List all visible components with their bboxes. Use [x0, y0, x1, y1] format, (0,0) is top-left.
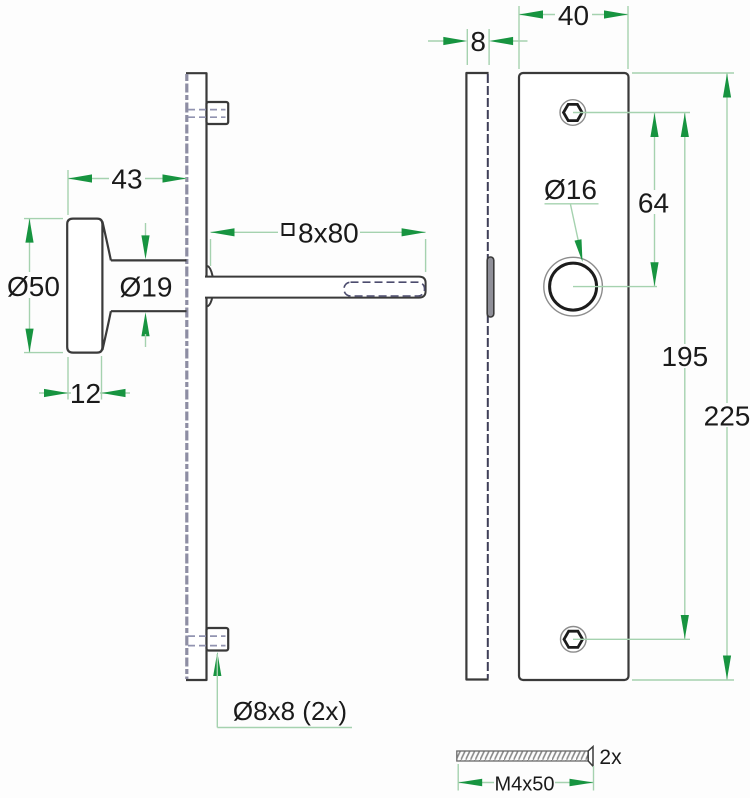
- dim 64 top arrow: [650, 113, 658, 137]
- dim 195 bottom arrow: [681, 615, 689, 639]
- leader D8x8 horizontal line: [217, 727, 352, 729]
- leader D8x8 arrow: [213, 652, 221, 676]
- dim 12 left arrow: [44, 389, 68, 397]
- middle plate outline: [466, 73, 488, 680]
- top screw hole hexagon: [564, 104, 583, 120]
- knob stem neck bottom edge: [111, 310, 187, 312]
- dim 40 right arrow: [604, 10, 628, 18]
- knob hole D16 inner circle: [550, 263, 597, 310]
- dim 12 extension left: [67, 357, 69, 400]
- top peg (8x8 pin): [188, 102, 228, 124]
- dim D50 top arrow: [25, 219, 33, 243]
- spindle hidden square hole dashed: [344, 282, 425, 296]
- leader D8x8 vertical line: [216, 654, 218, 728]
- spindle square bar 8x80: [205, 277, 426, 298]
- dim 8 left arrow: [443, 37, 467, 45]
- dim D19 top arrow: [141, 235, 149, 259]
- svg-text:2x: 2x: [599, 746, 622, 769]
- dim 8x80 left arrow: [211, 228, 235, 236]
- label D16 underline: [545, 203, 599, 205]
- label D16 leader line: [571, 205, 580, 245]
- bottom peg (8x8 pin): [188, 628, 228, 651]
- dim 40 line: [519, 14, 628, 16]
- knob head: [67, 219, 102, 353]
- svg-text:Ø50: Ø50: [7, 271, 60, 302]
- dim M4x50 extension left: [457, 764, 459, 791]
- dim 195 text: [661, 344, 709, 368]
- dim 8 extension left: [466, 29, 468, 65]
- svg-text:Ø8x8 (2x): Ø8x8 (2x): [233, 696, 347, 726]
- dim M4x50 right arrow: [570, 779, 594, 786]
- dim 43 left arrow: [68, 174, 92, 182]
- dim 12 line: [39, 392, 130, 394]
- dim 64 bottom arrow: [650, 262, 658, 286]
- hidden line top peg lower: [188, 116, 226, 118]
- knob taper cone top edge: [102, 222, 111, 261]
- dim 43 extension line left: [67, 170, 69, 215]
- plate (side view) outline: [186, 73, 207, 680]
- dim D50 extension bottom: [24, 352, 63, 354]
- dim M4x50 line: [458, 782, 593, 784]
- dim 8 line right tail: [510, 40, 528, 42]
- svg-text:M4x50: M4x50: [494, 774, 554, 796]
- svg-text:195: 195: [661, 341, 708, 372]
- dim 225 top arrow: [723, 74, 731, 98]
- dim 225 text: [703, 403, 750, 427]
- dim 8x80 extension left: [210, 239, 212, 266]
- centerline top hole: [573, 112, 690, 114]
- hidden line bottom peg lower: [188, 645, 226, 647]
- dim 12 text: [71, 382, 100, 403]
- dim 12 right arrow: [102, 389, 126, 397]
- svg-text:40: 40: [558, 0, 589, 31]
- centerline bottom hole: [573, 638, 690, 640]
- dim 225 line: [726, 73, 728, 680]
- centerline D16 hole: [573, 286, 657, 288]
- dim D50 line: [29, 219, 31, 353]
- knob hole D16 outer circle: [544, 257, 603, 316]
- middle plate dashed right edge: [487, 74, 489, 679]
- dim 195 line: [684, 113, 686, 640]
- dim 8x80 text: [278, 221, 360, 244]
- dim D19 top arrow line: [145, 223, 147, 240]
- dim M4x50 extension right: [593, 766, 595, 791]
- dim 195 top arrow: [681, 113, 689, 137]
- dim 8x80 line: [211, 231, 426, 233]
- svg-text:12: 12: [70, 378, 101, 409]
- dim M4x50 left arrow: [458, 779, 482, 786]
- dim 64 text: [636, 190, 672, 214]
- dim 43 text: [109, 168, 145, 189]
- top screw hole outer circle: [560, 100, 586, 126]
- knob stem neck top edge: [111, 259, 187, 261]
- dim D19 bottom arrow line: [145, 334, 147, 347]
- hidden line bottom peg upper: [188, 635, 226, 637]
- hub boss behind plate: [207, 266, 214, 306]
- front plate outline: [519, 73, 629, 680]
- dim D19 bottom arrow: [141, 312, 149, 336]
- dim D50 text: [8, 272, 57, 298]
- dim 8 extension right: [488, 29, 490, 65]
- dim 225 extension top: [632, 72, 734, 74]
- svg-text:8: 8: [470, 26, 486, 57]
- dim D50 bottom arrow: [25, 329, 33, 353]
- middle plate collar bump: [487, 257, 494, 317]
- svg-text:43: 43: [111, 164, 142, 195]
- dim 40 extension left: [518, 6, 520, 69]
- knob taper cone bottom edge: [102, 311, 111, 350]
- dim M4x50 text: [494, 772, 555, 791]
- hidden line top peg upper: [188, 109, 226, 111]
- bottom screw hole hexagon: [564, 631, 583, 647]
- dim 8x80 extension right: [425, 239, 427, 272]
- svg-text:Ø19: Ø19: [120, 272, 173, 303]
- dim 43 right arrow: [163, 174, 187, 182]
- dim 8 line left tail: [428, 40, 446, 42]
- dim 64 line: [654, 113, 656, 287]
- dim 225 extension bottom: [632, 679, 734, 681]
- svg-text:225: 225: [704, 401, 750, 432]
- plate sketchy left broken edge: [185, 74, 188, 679]
- dim 40 text: [555, 4, 592, 26]
- dim 40 extension right: [627, 6, 629, 69]
- dim 8x80 right arrow: [402, 228, 426, 236]
- svg-text:64: 64: [638, 188, 669, 219]
- svg-text:8x80: 8x80: [298, 217, 359, 248]
- dim 12 extension right: [101, 356, 103, 400]
- screw shaft: [457, 751, 589, 761]
- dim D50 extension top: [24, 218, 63, 220]
- dim 43 line: [68, 178, 187, 180]
- bottom screw hole outer circle: [561, 627, 587, 653]
- svg-text:Ø16: Ø16: [544, 174, 597, 205]
- label D16 leader arrow: [575, 239, 583, 262]
- dim 8 right arrow: [489, 37, 513, 45]
- screw countersunk head: [588, 747, 593, 767]
- dim 40 left arrow: [519, 10, 543, 18]
- dim 225 bottom arrow: [723, 656, 731, 680]
